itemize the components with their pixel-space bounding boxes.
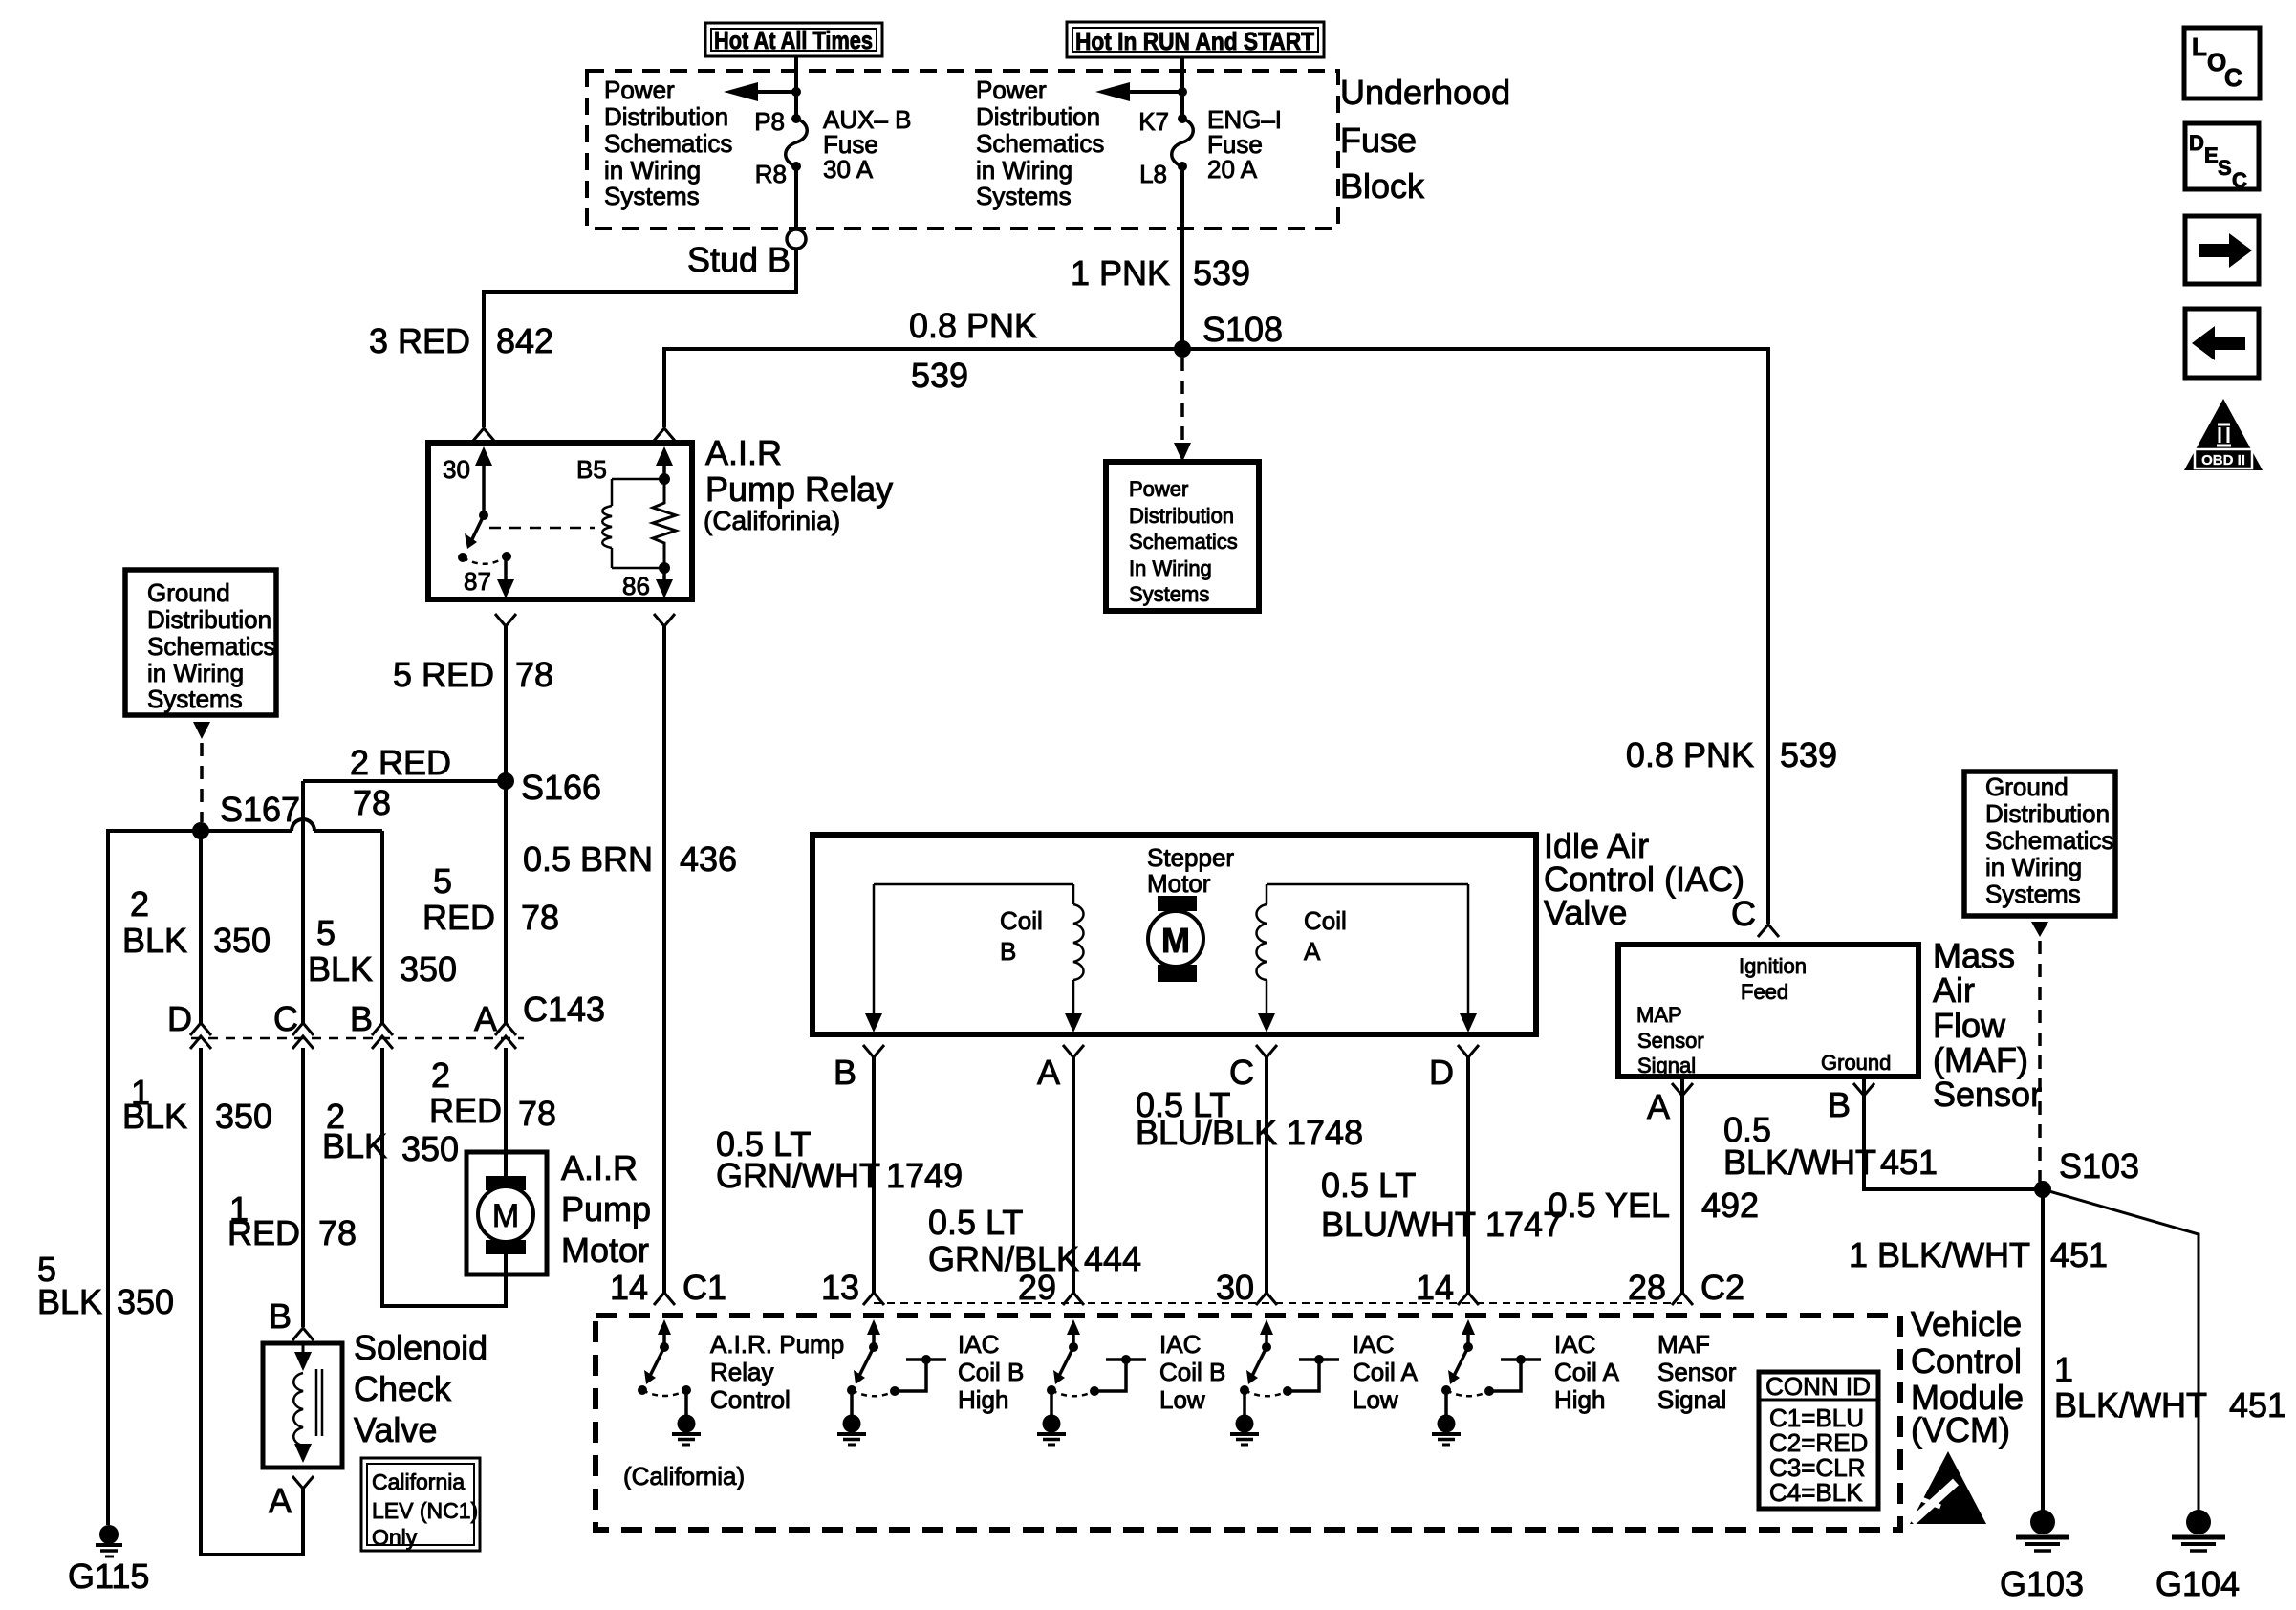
- svg-text:Low: Low: [1159, 1385, 1205, 1414]
- svg-text:G115: G115: [68, 1556, 149, 1596]
- svg-text:BLK: BLK: [37, 1282, 102, 1321]
- svg-text:BLK/WHT: BLK/WHT: [2054, 1385, 2207, 1425]
- svg-text:451: 451: [1880, 1142, 1938, 1182]
- svg-text:Motor: Motor: [1147, 869, 1211, 898]
- connector chevron at relay pin 30: [473, 428, 494, 441]
- svg-text:in Wiring: in Wiring: [147, 659, 244, 687]
- (California) note: [623, 1462, 745, 1490]
- node S103: [2034, 1146, 2139, 1198]
- IAC pin D: [1429, 1045, 1479, 1092]
- svg-text:G104: G104: [2155, 1564, 2240, 1603]
- svg-text:A.I.R: A.I.R: [705, 433, 782, 472]
- svg-text:MAF: MAF: [1657, 1330, 1710, 1359]
- svg-text:C: C: [273, 999, 298, 1038]
- note box: Power Distribution Schematics in Wiring Systems: [1106, 462, 1259, 611]
- svg-text:S: S: [2218, 156, 2232, 180]
- VCM switch: A.I.R pump relay control: [638, 1319, 701, 1445]
- svg-text:S108: S108: [1202, 310, 1283, 349]
- svg-text:(MAF): (MAF): [1933, 1040, 2028, 1079]
- svg-text:350: 350: [401, 1129, 459, 1168]
- A.I.R Pump Motor: [466, 1152, 547, 1274]
- wire: S167 horizontal with hop over 2 RED wire: [108, 819, 382, 831]
- relay switch dashed arc: [463, 556, 507, 564]
- wire 0.8 PNK 539: horizontal bus: [664, 306, 1768, 395]
- svg-text:GRN/WHT: GRN/WHT: [716, 1156, 880, 1195]
- wire 0.5 LT GRN/WHT 1749: IAC B to VCM 13: [716, 1057, 963, 1293]
- wire 2 RED 78: C143-A down to A.I.R pump motor: [429, 1048, 556, 1152]
- svg-text:28: 28: [1628, 1268, 1666, 1307]
- relay pin 85 node and arrow: [576, 446, 673, 485]
- svg-text:BLK: BLK: [322, 1126, 387, 1165]
- IAC pin B: [834, 1045, 884, 1092]
- Solenoid Check Valve: [263, 1343, 342, 1468]
- svg-text:Hot In RUN And START: Hot In RUN And START: [1075, 27, 1314, 55]
- svg-text:Control: Control: [1911, 1341, 2022, 1381]
- svg-text:B: B: [350, 999, 373, 1038]
- wire 0.5 YEL 492: MAF A to VCM 28: [1549, 1096, 1760, 1293]
- wire 0.8 PNK 539: down right side to MAF pin C: [1626, 347, 1837, 924]
- svg-text:Control: Control: [710, 1385, 791, 1414]
- svg-text:A: A: [474, 999, 497, 1038]
- svg-text:350: 350: [213, 921, 271, 960]
- svg-text:GRN/BLK: GRN/BLK: [928, 1239, 1079, 1278]
- A.I.R Pump Motor label: [561, 1148, 651, 1270]
- svg-text:Feed: Feed: [1741, 980, 1788, 1004]
- svg-text:Signal: Signal: [1657, 1385, 1726, 1414]
- IAC coil A: [1257, 884, 1478, 1033]
- svg-text:Schematics: Schematics: [1129, 530, 1238, 554]
- svg-text:Air: Air: [1933, 970, 1975, 1010]
- VCM pin 29: [1018, 1268, 1084, 1307]
- svg-text:A: A: [1304, 937, 1321, 966]
- svg-text:A: A: [1647, 1087, 1670, 1126]
- svg-text:30: 30: [1216, 1268, 1254, 1307]
- svg-text:(VCM): (VCM): [1911, 1410, 2010, 1449]
- svg-text:Valve: Valve: [354, 1410, 437, 1449]
- relay pin 86 node and arrow: [622, 562, 673, 600]
- IAC pin A: [1037, 1045, 1084, 1092]
- svg-text:S167: S167: [220, 790, 300, 829]
- svg-text:Schematics: Schematics: [1985, 826, 2113, 855]
- svg-text:CONN ID: CONN ID: [1765, 1372, 1871, 1401]
- underhood fuse block dashed box: [587, 71, 1338, 228]
- svg-text:Underhood: Underhood: [1340, 73, 1510, 112]
- svg-text:MAP: MAP: [1636, 1003, 1682, 1027]
- svg-text:1: 1: [2054, 1350, 2073, 1389]
- ESD sensitivity symbol: [1910, 1451, 1986, 1524]
- svg-text:E: E: [2204, 143, 2219, 167]
- svg-text:R8: R8: [755, 160, 787, 188]
- svg-text:C: C: [2224, 63, 2242, 92]
- svg-text:C: C: [1731, 894, 1756, 933]
- MAF pin A: [1647, 1077, 1693, 1126]
- svg-text:S166: S166: [521, 768, 601, 807]
- svg-text:BLU/WHT: BLU/WHT: [1321, 1205, 1476, 1244]
- svg-text:350: 350: [215, 1097, 272, 1136]
- svg-text:RED: RED: [422, 898, 495, 937]
- relay resistor: [653, 482, 676, 565]
- svg-text:Valve: Valve: [1544, 893, 1627, 932]
- svg-text:2 RED: 2 RED: [350, 743, 451, 782]
- svg-text:30 A: 30 A: [823, 155, 874, 184]
- VCM switch: IAC coil A low: [1230, 1319, 1339, 1445]
- svg-text:A.I.R: A.I.R: [561, 1148, 638, 1187]
- note box: Ground Distribution Schematics in Wiring Systems (left): [125, 570, 276, 715]
- svg-text:Low: Low: [1353, 1385, 1398, 1414]
- svg-text:Mass: Mass: [1933, 936, 2015, 975]
- svg-text:Sensor: Sensor: [1657, 1358, 1737, 1386]
- svg-text:BLK: BLK: [122, 1097, 187, 1136]
- svg-text:78: 78: [518, 1094, 556, 1133]
- connector C143 row: [191, 1037, 524, 1040]
- connector C143 pin D: [167, 999, 211, 1049]
- svg-text:High: High: [958, 1385, 1008, 1414]
- svg-text:Stepper: Stepper: [1147, 843, 1234, 872]
- svg-text:C: C: [2232, 168, 2247, 192]
- svg-text:OBD II: OBD II: [2201, 452, 2245, 468]
- wire: from Hot In RUN And START to fuse ENG-I: [1180, 57, 1184, 119]
- svg-text:14: 14: [1416, 1268, 1454, 1307]
- Mass Air Flow MAF Sensor box: [1618, 945, 1918, 1077]
- relay dashed link to coil: [489, 527, 595, 530]
- svg-text:Distribution: Distribution: [1985, 799, 2110, 828]
- svg-text:13: 13: [821, 1268, 859, 1307]
- svg-text:L8: L8: [1139, 160, 1167, 188]
- svg-text:Systems: Systems: [976, 182, 1072, 210]
- wire 1 BLK/WHT 451: S103 to G104: [2043, 1189, 2286, 1512]
- svg-text:1748: 1748: [1287, 1113, 1363, 1152]
- svg-text:(Califorinia): (Califorinia): [704, 506, 840, 535]
- svg-text:0.5 LT: 0.5 LT: [1321, 1165, 1416, 1205]
- wire 0.5 LT BLU/WHT 1747: IAC D to VCM 14: [1321, 1057, 1562, 1293]
- svg-text:Distribution: Distribution: [604, 102, 728, 131]
- wire: from Hot At All Times to fuse AUX-B: [794, 56, 798, 119]
- note: Power Distribution Schematics in Wiring Systems (right): [976, 76, 1104, 210]
- svg-text:Vehicle: Vehicle: [1911, 1304, 2022, 1343]
- icon: arrow right: [2185, 216, 2259, 284]
- svg-text:BLU/BLK: BLU/BLK: [1136, 1113, 1277, 1152]
- connector C143 label: [523, 990, 605, 1029]
- svg-text:78: 78: [515, 655, 553, 694]
- svg-text:Ground: Ground: [147, 578, 230, 607]
- svg-text:0.5 BRN: 0.5 BRN: [523, 839, 653, 879]
- svg-text:Solenoid: Solenoid: [354, 1328, 487, 1367]
- IAC stepper motor: [1147, 843, 1234, 982]
- svg-text:Motor: Motor: [561, 1230, 649, 1270]
- svg-text:30: 30: [443, 455, 470, 484]
- svg-text:C: C: [1229, 1053, 1254, 1092]
- connector chevron below relay pin 87: [495, 614, 516, 626]
- wire 0.5 LT GRN/BLK 444: IAC A to VCM 29: [928, 1057, 1141, 1293]
- svg-text:Coil B: Coil B: [958, 1358, 1024, 1386]
- svg-text:RED: RED: [429, 1091, 502, 1130]
- connector chevron solenoid pin B: [269, 1296, 314, 1340]
- wire 5 BLK 350: down to connector C143-B: [308, 831, 457, 1023]
- VCM pin 14 C1: [610, 1268, 726, 1307]
- relay switch arm: [458, 511, 488, 562]
- svg-text:451: 451: [2229, 1385, 2286, 1425]
- svg-text:B: B: [1828, 1085, 1851, 1124]
- svg-text:86: 86: [622, 572, 650, 600]
- svg-text:In Wiring: In Wiring: [1129, 556, 1212, 580]
- svg-text:Schematics: Schematics: [604, 129, 732, 158]
- svg-text:D: D: [167, 999, 192, 1038]
- svg-text:444: 444: [1084, 1239, 1141, 1278]
- svg-text:Ground: Ground: [1821, 1051, 1891, 1075]
- svg-text:Hot At All Times: Hot At All Times: [714, 26, 873, 54]
- svg-text:Stud B: Stud B: [687, 240, 791, 279]
- svg-text:Systems: Systems: [1129, 582, 1209, 606]
- svg-text:3 RED: 3 RED: [369, 321, 470, 360]
- svg-text:A.I.R. Pump: A.I.R. Pump: [710, 1330, 844, 1359]
- svg-text:C143: C143: [523, 990, 605, 1029]
- svg-text:Coil B: Coil B: [1159, 1358, 1225, 1386]
- node Stud B: [687, 229, 806, 279]
- note: Power Distribution Schematics in Wiring Systems (left): [604, 76, 732, 210]
- connector C143 pin C: [273, 999, 314, 1049]
- svg-text:Ground: Ground: [1985, 772, 2069, 801]
- VCM switch: IAC coil B high: [837, 1319, 946, 1445]
- svg-text:B: B: [834, 1053, 856, 1092]
- fuse ENG-I 20A with pins K7 L8: [1138, 105, 1282, 188]
- svg-text:A: A: [269, 1481, 292, 1520]
- svg-text:2: 2: [130, 884, 149, 924]
- ground G104: [2155, 1510, 2240, 1603]
- MAF Sensor Signal label: [1657, 1330, 1737, 1414]
- svg-text:Distribution: Distribution: [1129, 504, 1234, 528]
- svg-text:Ignition: Ignition: [1739, 954, 1807, 978]
- VCM switch: IAC coil A high: [1432, 1319, 1541, 1445]
- wire 1 BLK 350: C143-D down to solenoid check valve pin A: [122, 1048, 303, 1555]
- connector chevron solenoid pin A: [269, 1476, 314, 1520]
- ground G103: [2000, 1510, 2084, 1603]
- svg-text:Sensor: Sensor: [1933, 1075, 2042, 1114]
- svg-text:0.5 LT: 0.5 LT: [928, 1203, 1023, 1242]
- svg-text:California: California: [372, 1469, 465, 1494]
- IAC valve label: [1544, 826, 1744, 932]
- label box: Hot In RUN And START: [1067, 22, 1324, 57]
- svg-text:Power: Power: [1129, 477, 1188, 501]
- svg-text:Fuse: Fuse: [1340, 120, 1417, 160]
- wire 0.5 LT BLU/BLK 1748: IAC C to VCM 30: [1136, 1057, 1363, 1293]
- svg-text:LEV (NC1): LEV (NC1): [372, 1498, 478, 1523]
- icon: LOC: [2184, 28, 2260, 98]
- svg-text:5: 5: [433, 861, 452, 901]
- wire: Stud B down and left: [484, 249, 798, 292]
- wire 0.5 BLK/WHT 451: MAF B to S103: [1723, 1096, 2043, 1189]
- svg-text:1749: 1749: [886, 1156, 963, 1195]
- svg-text:78: 78: [353, 783, 391, 822]
- svg-text:Block: Block: [1340, 166, 1425, 206]
- wire 2 BLK 350: S167 down to connector C143-D: [122, 831, 271, 1023]
- IAC Coil A Low label: [1353, 1330, 1419, 1414]
- wire 1 BLK/WHT 451: S103 to G103: [1849, 1189, 2108, 1512]
- svg-text:492: 492: [1701, 1186, 1759, 1225]
- wire 2 RED 78: S166 left and down to connector C143-C: [303, 743, 506, 1023]
- relay pin 87 terminal arrow: [464, 552, 514, 598]
- ground G115: [68, 1525, 149, 1596]
- wire: fuse R8 down to Stud B: [794, 166, 798, 229]
- node S108: [1174, 310, 1283, 358]
- svg-text:B: B: [269, 1296, 292, 1336]
- IAC Coil B High label: [958, 1330, 1024, 1414]
- relay coil: [602, 479, 664, 568]
- svg-text:in Wiring: in Wiring: [604, 156, 701, 185]
- svg-text:Distribution: Distribution: [976, 102, 1100, 131]
- svg-text:Check: Check: [354, 1369, 452, 1408]
- arrow to power distribution (left fuse): [724, 82, 801, 101]
- svg-text:IAC: IAC: [1159, 1330, 1201, 1359]
- svg-text:BLK: BLK: [122, 921, 187, 960]
- IAC pin C: [1229, 1045, 1277, 1092]
- svg-text:Schematics: Schematics: [976, 129, 1104, 158]
- connector chevron at relay pin 85: [654, 428, 675, 441]
- IAC coil B: [865, 884, 1084, 1033]
- wire: 0.8 PNK branch down to relay pin 85: [662, 347, 666, 427]
- svg-text:G103: G103: [2000, 1564, 2084, 1603]
- wire 1 RED 78: C143-C down to solenoid check valve pin B: [227, 1048, 357, 1327]
- svg-text:14: 14: [610, 1268, 648, 1307]
- VCM pin 30: [1216, 1268, 1277, 1307]
- svg-text:Pump: Pump: [561, 1189, 651, 1229]
- VCM internal connector dashed line: [874, 1302, 1682, 1304]
- VCM label: [1911, 1304, 2024, 1449]
- svg-text:Coil A: Coil A: [1353, 1358, 1419, 1386]
- svg-text:P8: P8: [754, 107, 785, 136]
- svg-text:539: 539: [1193, 253, 1250, 293]
- svg-text:29: 29: [1018, 1268, 1056, 1307]
- svg-text:IAC: IAC: [958, 1330, 999, 1359]
- svg-text:IAC: IAC: [1554, 1330, 1595, 1359]
- svg-text:A: A: [1037, 1053, 1060, 1092]
- svg-text:0.8 PNK: 0.8 PNK: [909, 306, 1037, 345]
- svg-text:Power: Power: [604, 76, 675, 104]
- svg-text:M: M: [492, 1198, 519, 1234]
- svg-text:B5: B5: [576, 455, 607, 484]
- connector chevron below relay pin 86: [654, 614, 675, 626]
- svg-text:C2: C2: [1700, 1268, 1744, 1307]
- A.I.R Pump Relay box: [428, 443, 692, 599]
- svg-text:Systems: Systems: [1985, 880, 2081, 908]
- svg-text:Coil: Coil: [1304, 906, 1347, 935]
- svg-text:5: 5: [316, 913, 336, 952]
- A.I.R. Pump Relay Control label: [710, 1330, 844, 1414]
- svg-text:436: 436: [680, 839, 737, 879]
- svg-text:High: High: [1554, 1385, 1605, 1414]
- wire 3 RED 842: down to A.I.R pump relay pin 30: [369, 290, 553, 427]
- svg-text:IAC: IAC: [1353, 1330, 1394, 1359]
- svg-text:Only: Only: [372, 1525, 418, 1550]
- svg-text:842: 842: [496, 321, 553, 360]
- dashed wire from S108 to power distribution note: [1174, 358, 1191, 462]
- svg-text:Coil: Coil: [1000, 906, 1043, 935]
- svg-text:BLK: BLK: [308, 949, 373, 989]
- relay label: [704, 433, 893, 535]
- svg-text:Systems: Systems: [604, 182, 700, 210]
- svg-text:87: 87: [464, 567, 491, 596]
- VCM switch: IAC coil B low: [1037, 1319, 1146, 1445]
- MAF pin B: [1828, 1077, 1874, 1124]
- connector C143 pin B: [350, 999, 393, 1049]
- dashed wire from ground distribution note to S167: [193, 722, 210, 822]
- note box: California LEV (NC1) Only: [361, 1458, 480, 1551]
- svg-text:20 A: 20 A: [1207, 155, 1258, 184]
- svg-text:B: B: [1000, 937, 1016, 966]
- svg-text:78: 78: [521, 898, 559, 937]
- Solenoid Check Valve label: [354, 1328, 487, 1449]
- svg-text:5 RED: 5 RED: [393, 655, 494, 694]
- node S166: [497, 768, 601, 807]
- svg-text:Sensor: Sensor: [1637, 1029, 1704, 1053]
- node S167: [192, 790, 300, 839]
- IAC Coil A High label: [1554, 1330, 1620, 1414]
- svg-text:451: 451: [2050, 1235, 2108, 1274]
- svg-text:1 PNK: 1 PNK: [1071, 253, 1170, 293]
- svg-text:in Wiring: in Wiring: [976, 156, 1072, 185]
- svg-text:S103: S103: [2059, 1146, 2139, 1186]
- icon: OBD II triangle: [2184, 399, 2263, 470]
- svg-text:C4=BLK: C4=BLK: [1769, 1478, 1863, 1507]
- svg-text:Coil A: Coil A: [1554, 1358, 1620, 1386]
- svg-text:Schematics: Schematics: [147, 632, 275, 661]
- svg-text:K7: K7: [1138, 107, 1169, 136]
- fuse AUX-B 30A with pins P8 R8: [754, 105, 911, 188]
- svg-text:BLK/WHT: BLK/WHT: [1723, 1142, 1876, 1182]
- connector chevron MAF pin C: [1731, 894, 1779, 937]
- wire 5 BLK 350: S167 to G115: [37, 829, 174, 1525]
- svg-text:Flow: Flow: [1933, 1006, 2006, 1045]
- svg-text:350: 350: [117, 1282, 174, 1321]
- svg-text:Signal: Signal: [1637, 1054, 1696, 1077]
- svg-text:2: 2: [431, 1055, 450, 1095]
- svg-text:L: L: [2192, 33, 2207, 61]
- wire 2 BLK 350: C143-B down to A.I.R pump motor return: [322, 1048, 506, 1306]
- svg-text:539: 539: [1780, 735, 1837, 774]
- VCM pin 14 (C2): [1416, 1268, 1479, 1307]
- arrow to power distribution (right fuse): [1095, 82, 1187, 101]
- svg-text:0.5 YEL: 0.5 YEL: [1549, 1186, 1670, 1225]
- svg-text:350: 350: [400, 949, 457, 989]
- svg-text:D: D: [2189, 131, 2204, 155]
- icon: DESC: [2185, 123, 2259, 192]
- svg-text:78: 78: [318, 1213, 357, 1252]
- note box: Ground Distribution Schematics in Wiring Systems (right): [1964, 772, 2115, 916]
- svg-text:Pump Relay: Pump Relay: [705, 469, 893, 509]
- underhood fuse block label: [1340, 73, 1510, 206]
- svg-text:Systems: Systems: [147, 685, 243, 713]
- dashed wire from right ground note to S103: [2031, 922, 2048, 1182]
- svg-text:C1: C1: [682, 1268, 726, 1307]
- wire 5 RED 78: S166 down to connector C143-A: [422, 781, 559, 1023]
- svg-text:RED: RED: [227, 1213, 300, 1252]
- svg-text:Distribution: Distribution: [147, 605, 271, 634]
- Idle Air Control IAC Valve box: [812, 835, 1536, 1034]
- VCM pin 13: [821, 1268, 884, 1307]
- wire 5 RED 78: relay 87 to S166: [393, 626, 553, 781]
- connector C143 pin A: [474, 999, 516, 1049]
- MAF sensor label: [1933, 936, 2042, 1114]
- Vehicle Control Module dashed box: [596, 1316, 1900, 1530]
- CONN ID table: [1759, 1372, 1878, 1509]
- IAC Coil B Low label: [1159, 1330, 1225, 1414]
- VCM pin 28 C2: [1628, 1268, 1744, 1307]
- svg-text:D: D: [1429, 1053, 1454, 1092]
- svg-text:1 BLK/WHT: 1 BLK/WHT: [1849, 1235, 2030, 1274]
- svg-text:in Wiring: in Wiring: [1985, 853, 2082, 881]
- svg-text:(California): (California): [623, 1462, 745, 1490]
- label box: Hot At All Times: [705, 23, 882, 56]
- svg-text:0.8 PNK: 0.8 PNK: [1626, 735, 1754, 774]
